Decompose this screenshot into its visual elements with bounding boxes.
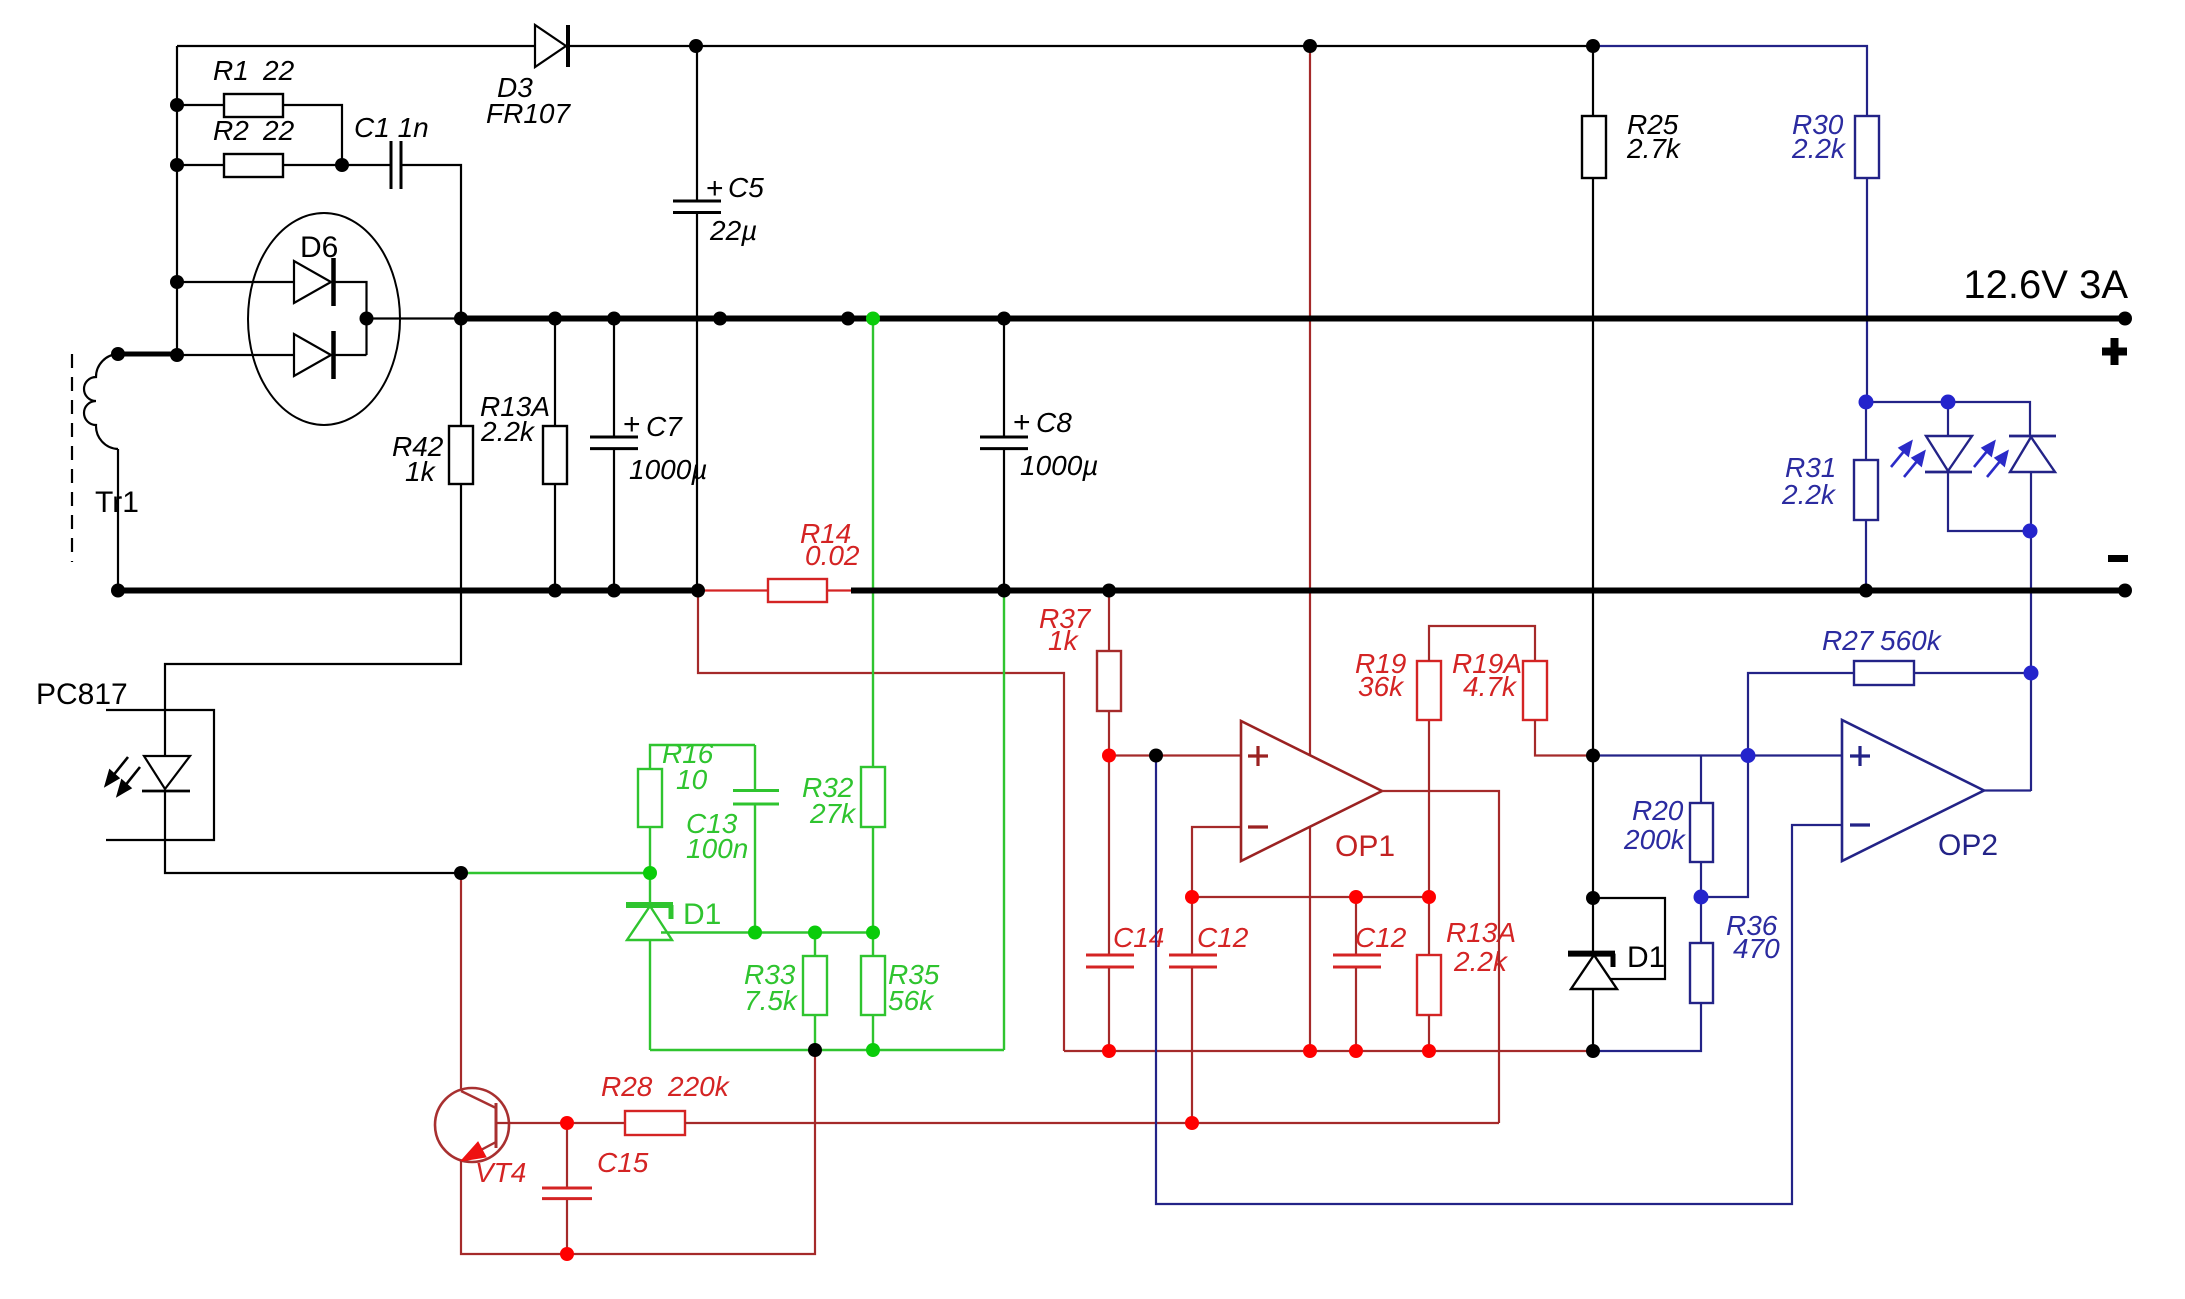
svg-text:2.7k: 2.7k — [1626, 133, 1682, 164]
node plus bus / C7 — [607, 312, 621, 326]
svg-text:0.02: 0.02 — [805, 540, 860, 571]
resistor R2 — [177, 154, 342, 177]
svg-text:200k: 200k — [1623, 824, 1687, 855]
node minus bus / C7 — [607, 584, 621, 598]
svg-text:OP1: OP1 — [1335, 830, 1395, 863]
wire: green bottom rail — [650, 1049, 1004, 1051]
node R13A right top — [1422, 890, 1436, 904]
op-amp OP1 — [1241, 721, 1382, 861]
node minus bus / R13A — [548, 584, 562, 598]
bridge rectifier D6 ellipse — [248, 213, 400, 425]
wire: blue R20 bottom to plus input vertical — [1701, 756, 1748, 898]
wire: OP2 minus input path — [1156, 756, 1842, 1205]
svg-text:2.2k: 2.2k — [480, 416, 536, 447]
wire: OP1 mid rail — [1192, 896, 1429, 898]
svg-text:10: 10 — [676, 764, 708, 795]
wire: OP1 plus input — [1109, 754, 1241, 756]
svg-text:220k: 220k — [667, 1071, 731, 1102]
wire: OP2 output — [1984, 789, 2031, 791]
wire: D6 output to plus bus — [367, 317, 462, 319]
resistor R19A — [1523, 661, 1593, 756]
svg-text:56k: 56k — [888, 985, 935, 1016]
capacitor C13 — [733, 745, 779, 933]
node R30 bottom / R31 top — [1859, 395, 1874, 410]
node R2 left — [170, 158, 184, 172]
node R27 left / OP2 plus — [1741, 748, 1756, 763]
node C12 left bottom — [1185, 1116, 1199, 1130]
node C13 bottom — [748, 926, 762, 940]
D6 diode top — [177, 258, 367, 355]
svg-text:36k: 36k — [1358, 671, 1405, 702]
resistor R32 — [861, 767, 885, 933]
svg-text:12.6V 3A: 12.6V 3A — [1963, 263, 2128, 307]
TL431 D1 green — [626, 873, 873, 1050]
wire: OP1 bottom red rail — [1064, 1050, 1593, 1052]
svg-text:1000µ: 1000µ — [629, 454, 707, 485]
capacitor C7 — [590, 319, 638, 591]
transistor VT4 — [435, 1088, 509, 1162]
node R27 right / OP2 output — [2024, 666, 2039, 681]
node C1 left — [335, 158, 349, 172]
svg-text:27k: 27k — [809, 798, 857, 829]
svg-text:1k: 1k — [1048, 625, 1080, 656]
minus bus left segment — [118, 588, 698, 594]
svg-text:22: 22 — [262, 115, 295, 146]
node D6 output — [360, 312, 374, 326]
node minus output terminal — [2118, 584, 2132, 598]
resistor R35 — [861, 933, 885, 1051]
resistor R1 — [177, 94, 342, 165]
svg-text:C8: C8 — [1036, 407, 1072, 438]
node R25 top — [1586, 39, 1600, 53]
resistor R37 — [1097, 591, 1121, 756]
node minus bus / C8 — [997, 584, 1011, 598]
node D6 top anode — [170, 275, 184, 289]
resistor R36 — [1593, 897, 1713, 1051]
node plus bus / R13A — [548, 312, 562, 326]
resistor R20 — [1690, 756, 1713, 898]
node R19A / R20 divider — [1586, 749, 1600, 763]
resistor R19 — [1417, 626, 1535, 720]
node minus bus / R31 — [1859, 584, 1873, 598]
svg-text:560k: 560k — [1880, 625, 1943, 656]
node red riser bottom — [1303, 1044, 1317, 1058]
op-amp OP2 — [1842, 720, 1984, 861]
svg-text:22: 22 — [262, 55, 295, 86]
node R33 top — [808, 926, 822, 940]
node plus bus / C8 — [997, 312, 1011, 326]
node minus bus / R14 left — [691, 584, 705, 598]
svg-text:C7: C7 — [646, 411, 683, 442]
node R37 bottom / OP1 plus — [1102, 749, 1116, 763]
wire: long red vertical from top rail to OP1 bottom rail — [1309, 46, 1311, 1051]
svg-text:FR107: FR107 — [486, 98, 571, 129]
node plus bus / R42 — [454, 312, 468, 326]
LED arrows middle pair — [1974, 442, 2007, 477]
plus bus 12.6V — [461, 316, 2125, 322]
node C5 top — [689, 39, 703, 53]
node R1 left — [170, 98, 184, 112]
svg-text:VT4: VT4 — [475, 1157, 526, 1188]
node C15 top / VT4 base — [560, 1116, 574, 1130]
transformer Tr1 — [72, 354, 177, 591]
svg-text:2.2k: 2.2k — [1453, 946, 1509, 977]
node C14 bottom — [1102, 1044, 1116, 1058]
svg-text:C5: C5 — [728, 172, 764, 203]
resistor R28 — [567, 1111, 1499, 1135]
capacitor C1 — [342, 141, 461, 318]
node D6 bottom anode — [170, 348, 184, 362]
D6 diode bottom — [177, 331, 367, 379]
svg-text:R1: R1 — [213, 55, 249, 86]
svg-text:470: 470 — [1733, 933, 1780, 964]
output plus symbol — [2102, 338, 2127, 365]
resistor R27 — [1748, 661, 2031, 756]
wire: green vertical from minus bus to green bottom rail — [1003, 591, 1005, 1051]
node D1 cathode — [1586, 891, 1600, 905]
svg-text:PC817: PC817 — [36, 678, 128, 711]
node OP2 minus tap — [1149, 749, 1163, 763]
wire: top rail left segment — [177, 45, 535, 47]
svg-text:C1 1n: C1 1n — [354, 112, 429, 143]
svg-text:R27: R27 — [1822, 625, 1875, 656]
svg-text:C12: C12 — [1355, 922, 1407, 953]
capacitor C14 — [1086, 756, 1134, 1052]
svg-text:22µ: 22µ — [709, 215, 757, 246]
svg-text:R2: R2 — [213, 115, 249, 146]
LED arrows left pair — [1891, 442, 1924, 477]
capacitor C15 — [542, 1123, 592, 1254]
resistor R16 — [638, 745, 755, 873]
resistor R13A left — [543, 319, 567, 591]
capacitor C12 left — [1169, 897, 1217, 1123]
node plus bus marker 1 — [713, 312, 727, 326]
wire: blue plus line to OP2 — [1593, 754, 1842, 756]
minus bus right segment — [851, 588, 2125, 594]
node LED1 top — [1941, 395, 1956, 410]
node bottom rail / D1 anode — [1586, 1044, 1600, 1058]
node C12 right top — [1349, 890, 1363, 904]
node minus bus / Tr1 — [111, 584, 125, 598]
resistor R42 — [165, 319, 473, 757]
svg-text:2.2k: 2.2k — [1781, 479, 1837, 510]
svg-text:+: + — [1013, 406, 1031, 439]
node opto cathode / VT4 collector — [454, 866, 468, 880]
diode D3 — [535, 25, 568, 67]
node LED bottom — [2023, 524, 2038, 539]
node red riser top — [1303, 39, 1317, 53]
svg-text:D1: D1 — [683, 898, 721, 931]
wire: green vertical from plus bus to R32 — [872, 319, 874, 768]
node C12 right bottom — [1349, 1044, 1363, 1058]
svg-text:2.2k: 2.2k — [1791, 133, 1847, 164]
wire: red sense wire from R14 left — [698, 591, 1064, 1052]
svg-text:C15: C15 — [597, 1147, 649, 1178]
svg-text:7.5k: 7.5k — [744, 985, 799, 1016]
resistor R33 — [803, 933, 827, 1051]
svg-text:OP2: OP2 — [1938, 829, 1998, 862]
node Tr1 top — [111, 347, 125, 361]
wire: OP1 output feedback loop — [1382, 791, 1499, 1123]
svg-text:100n: 100n — [686, 833, 748, 864]
wire: top rail from D3 cathode to R25 node — [568, 45, 1593, 47]
wire: VT4 base — [496, 1122, 567, 1124]
resistor R13A right — [1417, 720, 1441, 1051]
PC817 light arrows — [106, 757, 140, 795]
LED D right (indicator, reversed) — [2009, 436, 2056, 531]
svg-text:+: + — [706, 172, 724, 205]
node R35 bottom — [866, 1043, 880, 1057]
svg-text:C12: C12 — [1197, 922, 1249, 953]
capacitor C12 right — [1333, 897, 1381, 1051]
capacitor C5 — [673, 46, 721, 591]
node green rail / VT4 emitter — [808, 1043, 822, 1057]
node R32 bottom / R35 top — [866, 926, 880, 940]
wire: blue LED top rail — [1866, 402, 2030, 436]
svg-text:Tr1: Tr1 — [95, 486, 139, 519]
output minus symbol — [2108, 555, 2128, 562]
wire: blue vertical LED node to OP2 output — [2030, 531, 2032, 791]
wire: green opto cathode to TL431 node — [461, 872, 650, 874]
svg-text:R28: R28 — [601, 1071, 653, 1102]
svg-text:1k: 1k — [405, 456, 437, 487]
optocoupler PC817 — [106, 710, 461, 873]
node OP1 minus rail left — [1185, 890, 1199, 904]
wire: OP1 minus input — [1192, 827, 1241, 897]
LED D left (indicator) — [1925, 402, 2030, 531]
svg-text:D1: D1 — [1627, 941, 1665, 974]
node plus bus marker 2 — [841, 312, 855, 326]
TL431 D1 black with ref box — [1568, 756, 1665, 1052]
resistor R30 — [1855, 116, 1879, 402]
resistor R31 — [1854, 402, 1878, 591]
node TL431 cathode green — [643, 866, 657, 880]
wire: left vertical rail — [176, 46, 178, 354]
node C15 bottom — [560, 1247, 574, 1261]
node plus bus / R32 green — [866, 312, 880, 326]
node plus output terminal — [2118, 312, 2132, 326]
svg-text:+: + — [623, 408, 641, 441]
svg-text:R20: R20 — [1632, 795, 1684, 826]
wire: collector red vertical from opto node to VT4 — [460, 873, 462, 1089]
svg-text:R13A: R13A — [1446, 917, 1516, 948]
node R13A right bottom — [1422, 1044, 1436, 1058]
node R20 bottom / R36 top — [1694, 890, 1709, 905]
resistor R14 shunt — [698, 579, 851, 602]
svg-text:1000µ: 1000µ — [1020, 450, 1098, 481]
resistor R25 — [1582, 46, 1606, 756]
svg-text:4.7k: 4.7k — [1463, 671, 1518, 702]
wire: VT4 emitter down and bottom loop — [461, 1050, 815, 1254]
capacitor C8 — [980, 319, 1028, 591]
wire: blue top to R30 — [1593, 46, 1867, 116]
node minus bus / R37 — [1102, 584, 1116, 598]
